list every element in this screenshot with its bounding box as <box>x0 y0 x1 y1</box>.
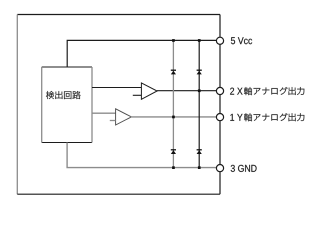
terminal pin 5 Vcc <box>216 37 223 44</box>
wire: bus segment pin 5 to pin 2 <box>219 44 221 87</box>
wire: Y buffer output to pin 1 <box>131 116 217 118</box>
label pin 2 CJK: 軸アナログ出力 <box>244 87 304 95</box>
wire: package outline top <box>17 14 220 16</box>
junction: rail A at GND wire <box>172 166 175 169</box>
wire: Y signal from box to Y buffer <box>92 112 116 114</box>
terminal pin 1 Y out <box>216 114 223 121</box>
wire: bus segment pin 1 to pin 3 <box>219 121 221 165</box>
junction: rail B at X output <box>198 89 201 92</box>
Y buffer inverting input stub <box>110 120 116 122</box>
X buffer inverting input stub <box>133 94 142 96</box>
label pin 1 CJK: 軸アナログ出力 <box>244 113 304 121</box>
label pin 5: 5 Vcc <box>231 37 252 44</box>
detection circuit block U1 検出回路 <box>42 67 92 143</box>
wire: package outline left <box>16 15 18 195</box>
junction: rail A at Vcc wire <box>172 39 175 42</box>
diode D3 (GND to rail A) <box>171 150 176 154</box>
wire: bus segment pin 2 to pin 1 <box>219 95 221 114</box>
label 検出回路 <box>46 91 81 99</box>
label pin 1 prefix: 1 Y <box>230 114 242 121</box>
wire: clamp diode rail B (X) <box>198 40 200 167</box>
wire: X buffer output to pin 2 <box>157 90 216 92</box>
junction: rail B at Vcc wire <box>198 39 201 42</box>
op-amp: Y output buffer <box>116 109 132 125</box>
wire: right terminal bus segment above pin 5 <box>219 15 221 38</box>
wire: GND from box bottom to pin 3 <box>67 143 216 168</box>
terminal pin 2 X out <box>216 87 223 94</box>
junction: rail B at GND wire <box>198 166 201 169</box>
diode D4 (GND to rail B) <box>197 150 202 154</box>
terminal pin 3 GND <box>216 165 223 172</box>
diode D1 (rail A to Vcc) <box>171 70 176 74</box>
wire: X signal from box to X buffer <box>92 87 142 89</box>
diode D2 (rail B to Vcc) <box>197 70 202 74</box>
wire: clamp diode rail A (Y) <box>172 40 174 167</box>
label pin 2 prefix: 2 X <box>230 88 242 95</box>
op-amp: X output buffer <box>141 83 157 99</box>
wire: Vcc feed from box top to pin 5 <box>67 40 216 67</box>
wire: bus segment below pin 3 <box>219 172 221 195</box>
junction: rail A at Y output <box>172 116 175 119</box>
wire: package outline bottom <box>17 193 220 195</box>
label pin 3: 3 GND <box>231 165 257 172</box>
